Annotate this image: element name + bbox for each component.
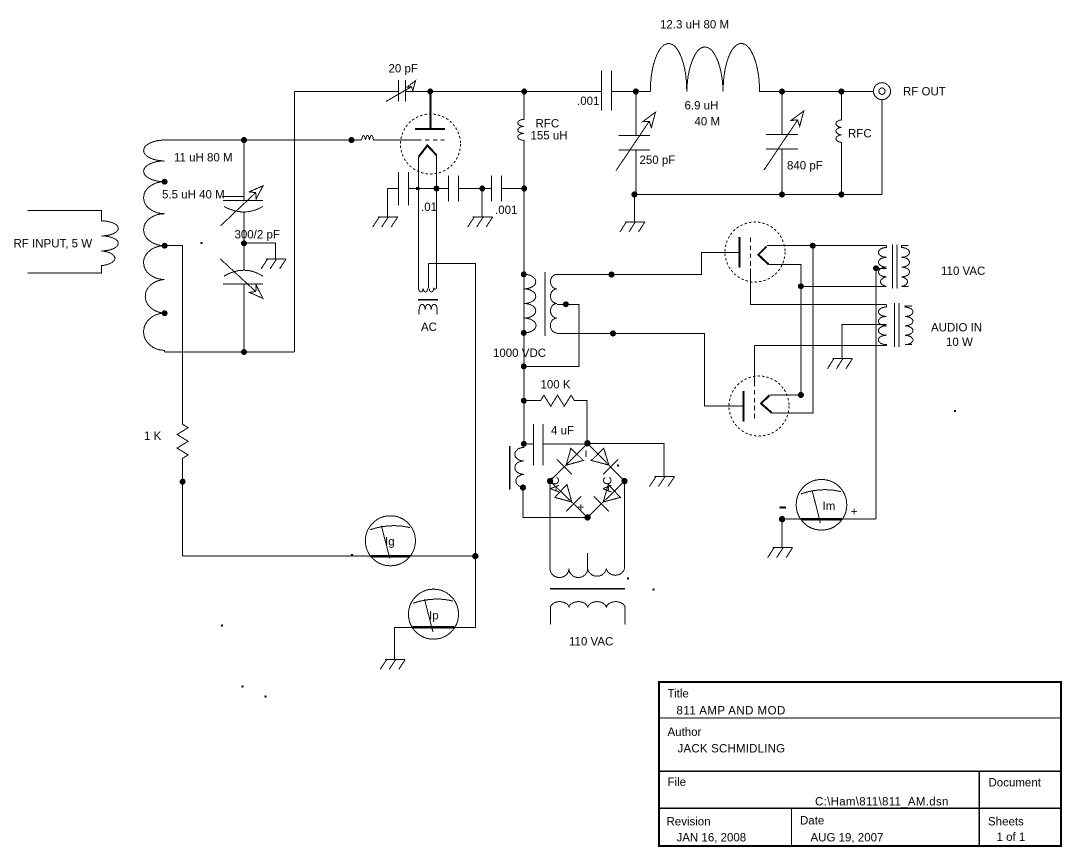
node cap center tap bbox=[241, 240, 247, 246]
ground below 250pF bbox=[620, 222, 645, 232]
capacitor .01 bypass bbox=[387, 172, 448, 217]
node on 1K branch bbox=[180, 479, 186, 485]
tube V3 grid lead bbox=[754, 345, 886, 382]
meter Im bbox=[796, 480, 847, 531]
choke core bbox=[509, 446, 511, 490]
transformer T4 audio left winding bbox=[878, 305, 886, 346]
resistor 1K branch wire bbox=[165, 246, 183, 425]
wire audio center tap to ground bbox=[842, 325, 886, 359]
wire feedback vertical bbox=[293, 92, 295, 353]
node Im left bbox=[779, 516, 785, 522]
capacitor 840 pF variable bbox=[766, 92, 798, 195]
tube V2 plate bbox=[738, 237, 740, 267]
wire Ig meter line bbox=[183, 555, 476, 557]
transformer T-AC core bbox=[418, 299, 438, 301]
wire AC center tap route bbox=[428, 264, 475, 628]
node bridge right bbox=[621, 478, 627, 484]
svg-text:+: + bbox=[578, 502, 585, 514]
svg-text:RFC: RFC bbox=[848, 129, 872, 141]
title block column lines bbox=[792, 771, 980, 846]
node bridge left bbox=[547, 478, 553, 484]
wire Ip meter line bbox=[395, 627, 476, 659]
title block row lines bbox=[659, 718, 1061, 808]
node 250pF bottom bbox=[631, 192, 637, 198]
node tank left bbox=[633, 89, 639, 95]
node tap lower bbox=[162, 310, 168, 316]
capacitor .001 bypass B bbox=[491, 175, 524, 201]
stub T3 center tap bbox=[876, 267, 887, 269]
node junction grid/cap bbox=[241, 137, 247, 143]
resistor 100 K bbox=[524, 395, 587, 444]
node RFC junction bbox=[521, 89, 527, 95]
svg-text:C:\Ham\811\811_AM.dsn: C:\Ham\811\811_AM.dsn bbox=[815, 797, 949, 809]
inductor RFC 155 uH bbox=[518, 92, 525, 189]
ground below Ip bbox=[380, 660, 405, 670]
minus tick bbox=[585, 451, 587, 458]
speck 7 bbox=[617, 465, 619, 467]
wire filament left lead bbox=[418, 157, 420, 288]
wire B+ rail down bbox=[523, 189, 525, 275]
svg-text:11 uH 80 M: 11 uH 80 M bbox=[174, 153, 233, 165]
wire choke to bridge plus bbox=[523, 488, 588, 518]
node tap 40M bbox=[162, 243, 168, 249]
tube V2 cathode bbox=[758, 247, 768, 265]
node T3 center tap bbox=[873, 265, 879, 271]
wire V3 cathode bottom riser bbox=[772, 246, 813, 413]
tube V3 811 modulator envelope bbox=[729, 376, 789, 436]
svg-text:AUG 19, 2007: AUG 19, 2007 bbox=[811, 833, 884, 845]
capacitor .001 coupling bbox=[602, 71, 612, 111]
svg-text:20 pF: 20 pF bbox=[389, 64, 418, 76]
node plate junction bbox=[427, 89, 433, 95]
svg-text:40 M: 40 M bbox=[695, 117, 721, 129]
wire top rail left bbox=[294, 91, 398, 93]
transformer T3 110VAC left winding bbox=[879, 246, 887, 287]
speck 2 bbox=[627, 578, 629, 580]
svg-text:811 AMP AND MOD: 811 AMP AND MOD bbox=[677, 706, 786, 718]
transformer T2 core bbox=[550, 588, 625, 590]
svg-text:RF OUT: RF OUT bbox=[903, 87, 946, 99]
wire filament right lead bbox=[436, 155, 438, 288]
capacitor 20 pF variable bbox=[386, 80, 416, 102]
wire Im riser bbox=[782, 268, 876, 519]
svg-text:JAN 16, 2008: JAN 16, 2008 bbox=[677, 833, 747, 845]
diode D1 top-left bbox=[557, 448, 584, 474]
wire bridge right leg bbox=[624, 481, 626, 569]
label minus bbox=[779, 506, 786, 508]
resistor R1 1 K bbox=[177, 424, 188, 556]
node Ig junction bbox=[472, 553, 478, 559]
speck 6 bbox=[653, 589, 655, 591]
RF INPUT link coupling coil bbox=[28, 211, 119, 273]
speck 5 bbox=[265, 696, 267, 698]
svg-text:RFC: RFC bbox=[536, 119, 560, 131]
svg-text:JACK SCHMIDLING: JACK SCHMIDLING bbox=[678, 744, 786, 756]
svg-text:Author: Author bbox=[668, 727, 702, 739]
ground below bypass bbox=[468, 217, 493, 227]
svg-text:Revision: Revision bbox=[667, 817, 711, 829]
svg-text:100 K: 100 K bbox=[541, 380, 571, 392]
speck 4 bbox=[242, 686, 244, 688]
svg-text:Date: Date bbox=[800, 816, 824, 828]
stub center tap T2 bbox=[587, 553, 589, 569]
node filament right junction bbox=[434, 186, 440, 192]
speck 8 bbox=[221, 625, 223, 627]
transformer T4 right winding bbox=[905, 306, 913, 345]
transformer T2 secondary winding bbox=[550, 569, 624, 578]
transformer T-AC filament comb bbox=[419, 264, 437, 292]
node RFC2 top bbox=[838, 89, 844, 95]
svg-text:155 uH: 155 uH bbox=[531, 131, 568, 143]
ground at 300/2 bbox=[261, 259, 286, 269]
node on secondary bottom wire bbox=[610, 330, 616, 336]
svg-text:Ig: Ig bbox=[385, 537, 395, 549]
node B+ rail junction bbox=[521, 186, 527, 192]
svg-text:250 pF: 250 pF bbox=[640, 155, 676, 167]
svg-text:110 VAC: 110 VAC bbox=[569, 637, 613, 649]
capacitor C1 300/2 pF upper section bbox=[223, 140, 263, 243]
tube V1 cathode bbox=[419, 145, 437, 157]
svg-text:Sheets: Sheets bbox=[988, 817, 1024, 829]
transformer T1 primary winding bbox=[524, 274, 536, 333]
wire tank bottom rail bbox=[634, 194, 882, 196]
meter Ig bbox=[365, 516, 415, 566]
title block outer frame bbox=[659, 682, 1061, 846]
wire bridge top to ground bbox=[588, 444, 665, 477]
node junction grid choke bbox=[349, 137, 355, 143]
capacitor 250 pF variable bbox=[618, 92, 650, 195]
svg-text:Document: Document bbox=[989, 778, 1042, 790]
wire top rail middle bbox=[406, 91, 602, 93]
tube V2 811 modulator envelope bbox=[725, 222, 785, 282]
transformer T3 right winding bbox=[902, 246, 910, 287]
speck 9 bbox=[351, 554, 353, 556]
arrow C1 lower bbox=[220, 259, 263, 298]
arrow C1 bbox=[220, 186, 263, 226]
node on secondary top wire bbox=[609, 272, 615, 278]
diode D3 bottom-left bbox=[555, 484, 581, 511]
svg-text:.001: .001 bbox=[495, 205, 517, 217]
wire top rail to RFC2 bbox=[782, 91, 874, 93]
svg-text:5.5 uH 40 M: 5.5 uH 40 M bbox=[162, 190, 225, 202]
svg-text:RF INPUT, 5 W: RF INPUT, 5 W bbox=[14, 239, 93, 251]
node V3 cathode top junction bbox=[798, 392, 804, 398]
wire top rail right of cap bbox=[612, 91, 651, 93]
node filament cross junction bbox=[798, 283, 804, 289]
inductor RFC output bbox=[836, 92, 841, 195]
node center tap bbox=[563, 301, 569, 307]
tube V2 grid lead bbox=[750, 269, 886, 305]
inductor 12.3 uH tank coil bbox=[650, 43, 782, 91]
capacitor 4 uF bbox=[524, 424, 588, 466]
svg-text:.01: .01 bbox=[421, 202, 437, 214]
node tap 80M bbox=[162, 179, 168, 185]
node 840pF bottom bbox=[779, 192, 785, 198]
svg-text:6.9 uH: 6.9 uH bbox=[685, 101, 719, 113]
node bridge top bbox=[584, 440, 590, 446]
wire T3 bottom lead bbox=[801, 285, 887, 287]
svg-text:+: + bbox=[851, 507, 858, 519]
node plate transformer top bbox=[521, 271, 527, 277]
svg-text:Im: Im bbox=[823, 501, 836, 513]
node plate transformer bottom bbox=[521, 330, 527, 336]
tube V3 cathode bbox=[761, 395, 772, 412]
svg-text:Title: Title bbox=[668, 689, 689, 701]
transformer T1 secondary winding bbox=[550, 274, 557, 333]
wire ground stem bbox=[633, 195, 635, 223]
svg-text:AC: AC bbox=[550, 477, 562, 493]
wire V3 cathode top lead bbox=[770, 394, 801, 396]
node rail at 4uF bbox=[521, 441, 527, 447]
svg-text:12.3 uH 80 M: 12.3 uH 80 M bbox=[660, 20, 729, 32]
node bridge bottom bbox=[584, 514, 590, 520]
capacitor C1 300/2 pF lower section bbox=[223, 243, 263, 352]
transformer T4 core bbox=[895, 303, 899, 347]
wire secondary bottom to tube V3 plate bbox=[557, 333, 743, 406]
inductor parasitic choke bbox=[362, 135, 418, 140]
svg-text:300/2 pF: 300/2 pF bbox=[235, 230, 280, 242]
svg-text:File: File bbox=[668, 777, 687, 789]
transformer T2 primary winding bbox=[550, 602, 625, 625]
ground below Im bbox=[768, 548, 793, 558]
tube V1 plate bbox=[415, 92, 445, 129]
tube V3 plate bbox=[742, 391, 744, 421]
svg-text:Ip: Ip bbox=[429, 611, 439, 623]
svg-text:10 W: 10 W bbox=[946, 337, 973, 349]
ground right of bridge bbox=[650, 477, 675, 487]
choke filter winding bbox=[515, 448, 524, 488]
inductor L1 input tank coil bbox=[144, 140, 165, 352]
wire V2 cathode bottom lead bbox=[769, 265, 801, 396]
diode D2 top-right bbox=[591, 448, 618, 474]
node tank bottom bbox=[241, 349, 247, 355]
svg-text:AC: AC bbox=[421, 322, 437, 334]
svg-text:1 K: 1 K bbox=[144, 431, 162, 443]
transformer T-AC lower winding bbox=[419, 304, 437, 314]
transformer T3 core bbox=[892, 245, 897, 289]
wire bridge left leg bbox=[549, 481, 551, 569]
diode D4 bottom-right bbox=[594, 484, 620, 511]
wire grid line y=140 bbox=[165, 139, 362, 141]
wire center tap route bbox=[524, 304, 579, 366]
svg-text:4 uF: 4 uF bbox=[551, 426, 574, 438]
wire to ground bbox=[481, 189, 483, 218]
svg-text:110 VAC: 110 VAC bbox=[941, 266, 985, 278]
node rail at 400 bbox=[521, 398, 527, 404]
node bypass ground junction bbox=[479, 186, 485, 192]
wire rail 274-443 bbox=[523, 274, 525, 447]
node tank right bbox=[779, 89, 785, 95]
transformer T1 core bbox=[544, 272, 546, 336]
arrow 250 pF bbox=[616, 112, 655, 170]
leader line bbox=[222, 195, 244, 197]
tube V1 grid bbox=[417, 139, 445, 141]
tube V3 grid bbox=[753, 382, 755, 421]
connector RF OUT bbox=[874, 83, 891, 100]
wire secondary top to tube V2 plate bbox=[557, 252, 739, 274]
svg-text:1000 VDC: 1000 VDC bbox=[493, 348, 546, 360]
wire V2 cathode top lead bbox=[767, 245, 887, 247]
speck 1 bbox=[201, 242, 203, 244]
node filament left junction bbox=[416, 187, 419, 190]
bridge rectifier diamond bbox=[550, 443, 624, 517]
svg-text:AC: AC bbox=[603, 477, 615, 493]
node cathode top junction bbox=[810, 243, 816, 249]
node RFC2 bottom bbox=[838, 192, 844, 198]
svg-text:840 pF: 840 pF bbox=[787, 161, 823, 173]
tube V2 grid bbox=[749, 238, 751, 269]
capacitor .001 bypass A bbox=[448, 175, 491, 201]
svg-text:AUDIO IN: AUDIO IN bbox=[931, 323, 982, 335]
wire RF OUT drop bbox=[881, 100, 883, 195]
tube V1 811 RF amplifier envelope bbox=[401, 114, 461, 174]
svg-text:.001: .001 bbox=[577, 96, 599, 108]
svg-text:1 of 1: 1 of 1 bbox=[997, 832, 1026, 844]
ground audio bbox=[828, 359, 853, 369]
wire tank bottom rail bbox=[165, 351, 295, 353]
wire Im to ground bbox=[781, 519, 783, 548]
node rail at 366 bbox=[521, 363, 527, 369]
ground left of .01 cap bbox=[373, 217, 398, 227]
node choke bottom bbox=[520, 485, 526, 491]
wire cap tap to ground bbox=[244, 243, 276, 259]
speck 3 bbox=[954, 410, 956, 412]
arrow 840 pF bbox=[764, 111, 804, 170]
meter Ip bbox=[409, 589, 459, 639]
